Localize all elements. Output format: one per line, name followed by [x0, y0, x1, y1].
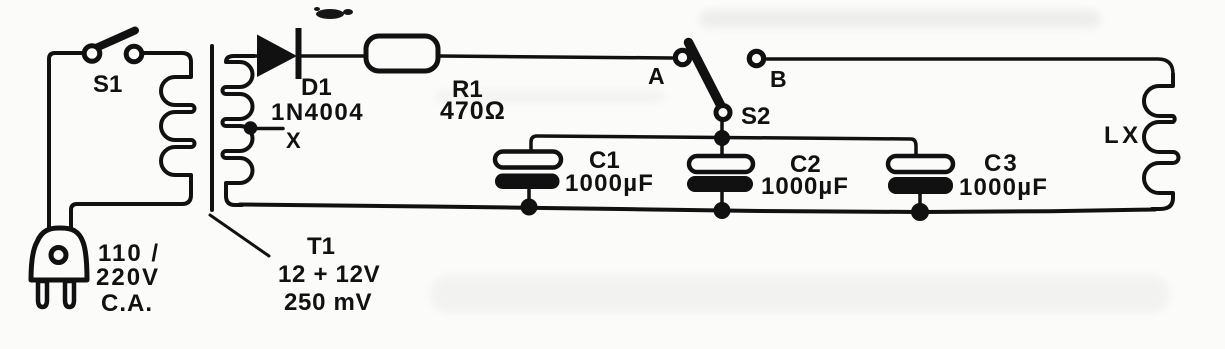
svg-text:12 + 12V: 12 + 12V: [278, 261, 380, 288]
switch S1 lever: [97, 31, 135, 48]
wire diode cathode to R1: [301, 54, 366, 58]
switch S2 contact B: [749, 51, 763, 65]
svg-text:1N4004: 1N4004: [271, 99, 364, 126]
wire plug to S1 (left vertical + top corner): [49, 53, 81, 232]
switch S2 contact A: [675, 50, 689, 64]
svg-text:1000µF: 1000µF: [565, 170, 654, 197]
svg-text:T1: T1: [307, 233, 335, 260]
wire S1 to transformer primary: [142, 51, 182, 55]
capacitor C3 lead to rail: [918, 194, 922, 211]
svg-text:D1: D1: [301, 74, 332, 101]
ink smudge top: [314, 7, 353, 19]
svg-text:250 mV: 250 mV: [284, 289, 372, 316]
capacitor top bus wire: [531, 136, 916, 156]
junction dot C2 bottom: [714, 202, 731, 219]
AC plug left prong: [38, 281, 47, 307]
junction dot C3 bottom: [911, 203, 929, 221]
AC plug body: [31, 228, 87, 280]
resistor R1 body: [366, 36, 438, 71]
capacitor C3 bottom plate: [888, 177, 953, 194]
capacitor C3 top plate: [888, 156, 953, 172]
transformer T1 core: [210, 46, 214, 210]
svg-text:LX: LX: [1104, 122, 1142, 149]
capacitor C2 top plate: [689, 156, 753, 172]
transformer T1 secondary winding: [223, 56, 254, 205]
bottom rail wire: [240, 205, 1155, 213]
wire secondary to diode anode: [252, 54, 260, 58]
wire contact B to LX: [767, 59, 1173, 74]
AC plug right prong: [65, 281, 74, 307]
wire R1 to contact A: [438, 56, 672, 58]
inductor LX winding: [1144, 74, 1179, 209]
svg-text:A: A: [648, 63, 665, 89]
faint bleed-through top right: [700, 10, 1100, 28]
svg-text:C.A.: C.A.: [101, 290, 153, 317]
svg-text:470Ω: 470Ω: [440, 97, 506, 125]
AC plug face hole: [51, 248, 66, 263]
svg-text:B: B: [770, 66, 787, 92]
switch S1 right contact: [126, 46, 142, 62]
faint bleed-through mid left band: [435, 90, 665, 103]
diode D1 triangle: [257, 35, 297, 78]
svg-text:C3: C3: [984, 150, 1019, 177]
node X dot: [244, 121, 258, 135]
capacitor C1 bottom plate: [495, 174, 560, 190]
svg-text:X: X: [286, 128, 301, 153]
svg-text:1000µF: 1000µF: [761, 173, 849, 200]
T1 leader line: [210, 215, 269, 256]
switch S2 lever: [689, 43, 721, 106]
capacitor C2 lead to rail: [720, 192, 724, 209]
svg-text:1000µF: 1000µF: [959, 174, 1048, 201]
svg-text:S1: S1: [93, 71, 122, 98]
transformer T1 primary winding: [71, 53, 195, 230]
node X tap wire: [251, 127, 283, 131]
capacitor C1 top plate: [495, 152, 561, 168]
junction dot C1 bottom: [521, 199, 538, 216]
faint bleed-through bottom band: [430, 275, 1170, 313]
svg-text:110 /: 110 /: [98, 240, 160, 267]
diode D1 cathode bar: [296, 28, 302, 79]
svg-text:S2: S2: [741, 103, 770, 130]
switch S2 pole: [716, 106, 730, 120]
capacitor C1 lead to rail: [527, 189, 531, 205]
switch S1 left contact: [84, 46, 100, 62]
svg-text:220V: 220V: [96, 264, 160, 291]
wire S2 pole to junction: [720, 122, 724, 134]
junction dot S2/C2 top: [714, 130, 730, 146]
capacitor C2 lead from junction: [720, 140, 724, 156]
capacitor C2 bottom plate: [687, 176, 753, 192]
